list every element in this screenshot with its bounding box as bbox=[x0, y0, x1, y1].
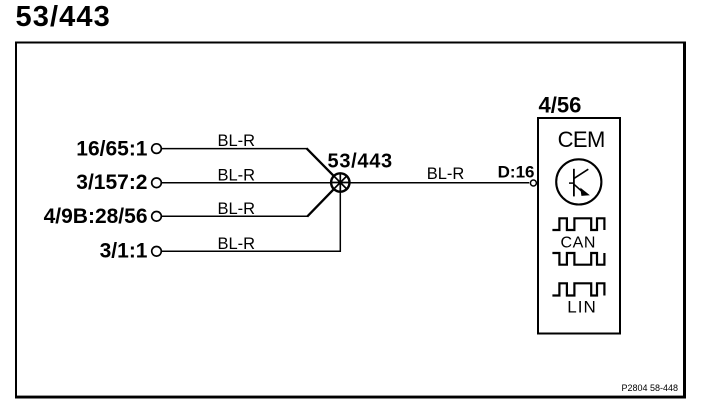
wire from 4/9B:28/56 diagonal bbox=[307, 189, 334, 217]
square wave CAN high bbox=[552, 218, 604, 230]
splice node 53/443 bbox=[331, 173, 350, 192]
svg-text:53/443: 53/443 bbox=[16, 1, 111, 33]
wire from 4/9B:28/56 horizontal bbox=[161, 215, 308, 217]
svg-text:LIN: LIN bbox=[567, 298, 596, 317]
svg-text:BL-R: BL-R bbox=[218, 166, 256, 184]
svg-text:16/65:1: 16/65:1 bbox=[76, 138, 148, 161]
wire from 16/65:1 horizontal bbox=[161, 148, 307, 150]
svg-text:P2804 58-448: P2804 58-448 bbox=[621, 383, 678, 393]
component box CEM 4/56 bbox=[538, 118, 620, 334]
wire from 3/157:2 bbox=[161, 182, 330, 184]
svg-text:BL-R: BL-R bbox=[218, 200, 256, 218]
svg-text:CEM: CEM bbox=[558, 127, 605, 152]
pin 3/157:2 bbox=[152, 178, 162, 188]
square wave CAN low bbox=[552, 253, 604, 265]
pin 16/65:1 bbox=[152, 144, 162, 154]
wire from 3/1:1 bbox=[161, 193, 340, 252]
svg-text:4/9B:28/56: 4/9B:28/56 bbox=[44, 205, 148, 228]
transistor icon inside CEM bbox=[556, 159, 601, 204]
pin D:16 bbox=[530, 180, 536, 186]
pin 4/9B:28/56 bbox=[152, 212, 162, 222]
svg-text:BL-R: BL-R bbox=[218, 132, 256, 150]
wire splice to CEM bbox=[350, 182, 530, 184]
svg-text:4/56: 4/56 bbox=[539, 92, 582, 117]
svg-text:3/157:2: 3/157:2 bbox=[76, 171, 147, 194]
svg-text:BL-R: BL-R bbox=[218, 235, 256, 253]
square wave LIN bbox=[552, 283, 604, 295]
svg-text:D:16: D:16 bbox=[498, 162, 535, 181]
pin 3/1:1 bbox=[152, 247, 162, 257]
svg-text:BL-R: BL-R bbox=[427, 165, 465, 183]
wire from 16/65:1 diagonal bbox=[307, 148, 335, 176]
svg-text:53/443: 53/443 bbox=[328, 150, 393, 172]
svg-text:3/1:1: 3/1:1 bbox=[100, 240, 148, 263]
svg-text:CAN: CAN bbox=[561, 235, 597, 252]
